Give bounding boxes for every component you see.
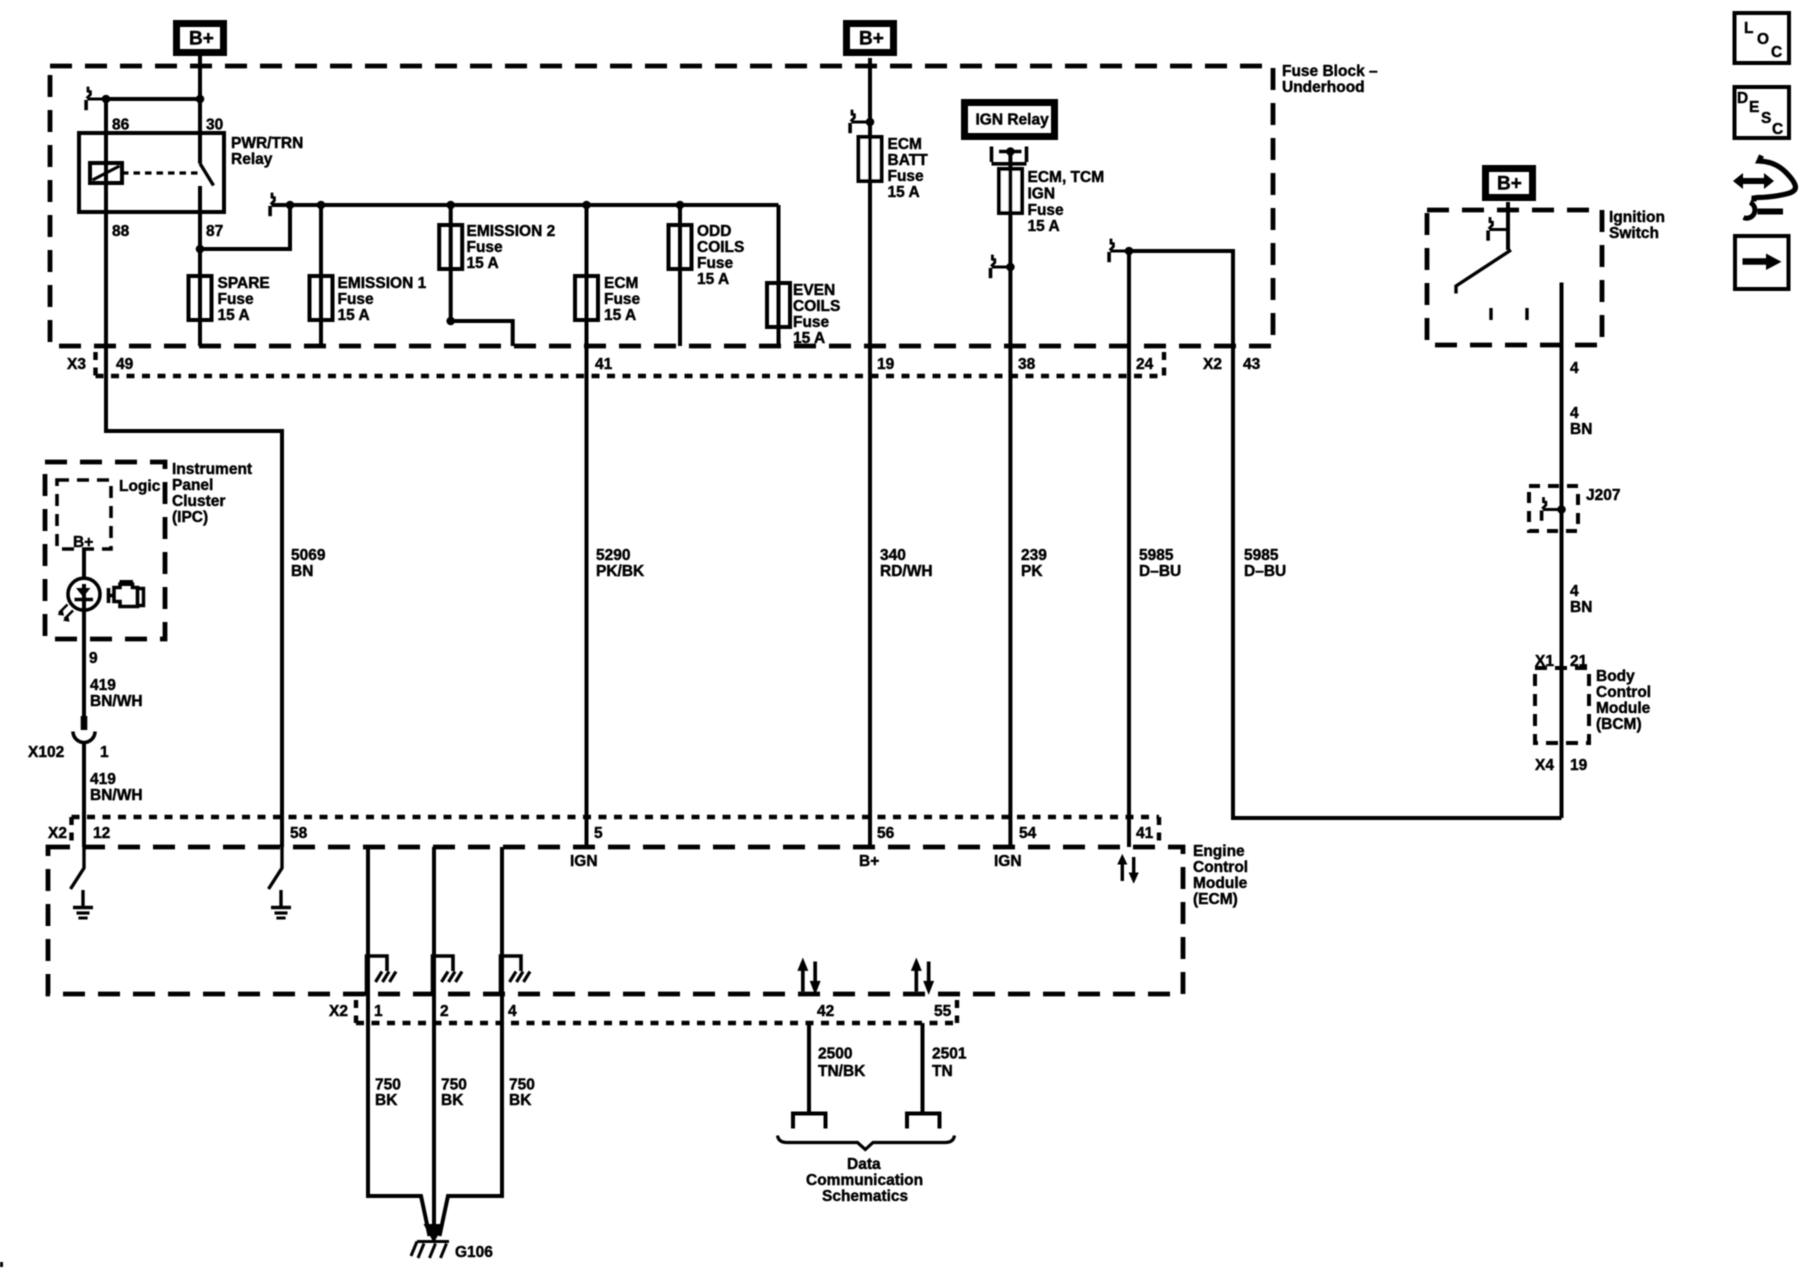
svg-text:19: 19 <box>1570 757 1588 774</box>
svg-text:Schematics: Schematics <box>822 1188 908 1205</box>
svg-text:Ignition: Ignition <box>1609 209 1665 226</box>
svg-text:ECM: ECM <box>604 275 638 292</box>
svg-text:BN: BN <box>1570 421 1592 438</box>
svg-text:BN: BN <box>291 563 313 580</box>
svg-text:Fuse: Fuse <box>604 291 641 308</box>
svg-text:PK: PK <box>1021 563 1043 580</box>
svg-text:Relay: Relay <box>231 151 273 168</box>
svg-text:5985: 5985 <box>1139 547 1174 564</box>
svg-text:E: E <box>1749 99 1759 116</box>
svg-text:41: 41 <box>595 356 613 373</box>
svg-text:EMISSION 2: EMISSION 2 <box>467 223 556 240</box>
svg-text:X2: X2 <box>48 825 67 842</box>
svg-text:5: 5 <box>594 825 603 842</box>
svg-text:19: 19 <box>877 356 895 373</box>
svg-text:L: L <box>1744 20 1753 37</box>
svg-text:Fuse: Fuse <box>338 291 375 308</box>
svg-text:IGN: IGN <box>1028 185 1056 202</box>
svg-text:Fuse: Fuse <box>888 168 925 185</box>
svg-text:Logic: Logic <box>119 478 161 495</box>
svg-text:43: 43 <box>1243 356 1261 373</box>
svg-text:B+: B+ <box>859 853 879 870</box>
svg-text:(BCM): (BCM) <box>1596 716 1642 733</box>
svg-text:Fuse Block –: Fuse Block – <box>1282 63 1378 80</box>
svg-text:Cluster: Cluster <box>172 493 225 510</box>
svg-text:1: 1 <box>100 744 109 761</box>
svg-text:ECM: ECM <box>888 136 922 153</box>
svg-text:9: 9 <box>89 650 98 667</box>
svg-text:419: 419 <box>90 677 116 694</box>
svg-text:2: 2 <box>440 1003 449 1020</box>
svg-text:IGN: IGN <box>994 853 1022 870</box>
svg-text:750: 750 <box>375 1077 401 1094</box>
svg-text:4: 4 <box>1570 360 1579 377</box>
svg-text:D–BU: D–BU <box>1244 563 1286 580</box>
svg-text:BATT: BATT <box>888 152 929 169</box>
svg-text:Engine: Engine <box>1193 843 1245 860</box>
svg-text:5290: 5290 <box>596 547 630 564</box>
svg-text:TN/BK: TN/BK <box>818 1063 866 1080</box>
svg-text:PWR/TRN: PWR/TRN <box>231 135 303 152</box>
svg-text:BN: BN <box>1570 599 1592 616</box>
svg-text:B+: B+ <box>189 29 214 50</box>
svg-text:B+: B+ <box>73 534 93 551</box>
svg-text:O: O <box>1757 31 1769 48</box>
svg-text:4: 4 <box>508 1003 517 1020</box>
svg-text:87: 87 <box>206 223 223 240</box>
svg-text:340: 340 <box>880 547 906 564</box>
svg-text:COILS: COILS <box>793 298 840 315</box>
svg-text:86: 86 <box>112 117 130 134</box>
svg-text:S: S <box>1761 110 1771 127</box>
svg-text:2501: 2501 <box>932 1046 967 1063</box>
svg-text:EMISSION 1: EMISSION 1 <box>338 275 427 292</box>
svg-text:Fuse: Fuse <box>793 314 830 331</box>
svg-text:BK: BK <box>441 1092 464 1109</box>
svg-text:COILS: COILS <box>697 239 744 256</box>
svg-text:BN/WH: BN/WH <box>90 787 143 804</box>
svg-text:C: C <box>1772 121 1783 138</box>
svg-text:D: D <box>1737 90 1748 107</box>
svg-text:55: 55 <box>934 1003 952 1020</box>
svg-text:750: 750 <box>441 1077 467 1094</box>
svg-text:15 A: 15 A <box>888 184 920 201</box>
svg-text:X3: X3 <box>67 356 86 373</box>
svg-text:Module: Module <box>1193 875 1248 892</box>
svg-text:15 A: 15 A <box>793 330 825 347</box>
svg-text:15 A: 15 A <box>218 307 250 324</box>
svg-text:IGN Relay: IGN Relay <box>976 112 1050 129</box>
svg-text:RD/WH: RD/WH <box>880 563 933 580</box>
svg-text:38: 38 <box>1018 356 1036 373</box>
svg-text:49: 49 <box>116 356 134 373</box>
svg-text:30: 30 <box>206 117 223 134</box>
svg-text:Control: Control <box>1193 859 1248 876</box>
svg-text:Fuse: Fuse <box>467 239 504 256</box>
svg-text:B+: B+ <box>859 29 884 50</box>
svg-text:24: 24 <box>1136 356 1154 373</box>
svg-text:Body: Body <box>1596 668 1635 685</box>
svg-text:750: 750 <box>509 1077 535 1094</box>
svg-text:X4: X4 <box>1535 757 1554 774</box>
svg-text:BK: BK <box>509 1092 532 1109</box>
svg-text:239: 239 <box>1021 547 1047 564</box>
svg-text:C: C <box>1771 44 1782 61</box>
svg-text:(ECM): (ECM) <box>1193 891 1238 908</box>
svg-text:5985: 5985 <box>1244 547 1279 564</box>
svg-text:Underhood: Underhood <box>1282 79 1365 96</box>
svg-text:88: 88 <box>112 223 130 240</box>
svg-text:Switch: Switch <box>1609 225 1659 242</box>
svg-text:54: 54 <box>1019 825 1037 842</box>
svg-text:41: 41 <box>1136 825 1154 842</box>
svg-text:42: 42 <box>817 1003 834 1020</box>
svg-text:G106: G106 <box>455 1244 493 1261</box>
svg-text:Fuse: Fuse <box>218 291 255 308</box>
svg-text:Data: Data <box>847 1156 881 1173</box>
svg-text:ECM, TCM: ECM, TCM <box>1028 169 1105 186</box>
svg-text:5069: 5069 <box>291 547 326 564</box>
svg-text:15 A: 15 A <box>338 307 370 324</box>
svg-text:Module: Module <box>1596 700 1651 717</box>
svg-text:56: 56 <box>877 825 895 842</box>
svg-text:58: 58 <box>290 825 308 842</box>
svg-text:4: 4 <box>1570 405 1579 422</box>
svg-text:TN: TN <box>932 1063 953 1080</box>
svg-text:419: 419 <box>90 771 116 788</box>
svg-text:Fuse: Fuse <box>697 255 734 272</box>
svg-text:1: 1 <box>374 1003 383 1020</box>
svg-text:X2: X2 <box>1203 356 1222 373</box>
svg-text:J207: J207 <box>1586 487 1620 504</box>
svg-text:Control: Control <box>1596 684 1651 701</box>
svg-text:15 A: 15 A <box>467 255 499 272</box>
svg-text:(IPC): (IPC) <box>172 509 208 526</box>
svg-text:D–BU: D–BU <box>1139 563 1181 580</box>
svg-text:SPARE: SPARE <box>218 275 270 292</box>
svg-text:2500: 2500 <box>818 1046 852 1063</box>
svg-text:Fuse: Fuse <box>1028 202 1065 219</box>
svg-text:BN/WH: BN/WH <box>90 693 143 710</box>
svg-text:EVEN: EVEN <box>793 282 835 299</box>
svg-text:BK: BK <box>375 1092 398 1109</box>
svg-text:Panel: Panel <box>172 477 213 494</box>
svg-text:B+: B+ <box>1497 174 1522 195</box>
svg-text:X2: X2 <box>329 1003 348 1020</box>
svg-text:15 A: 15 A <box>697 271 729 288</box>
svg-text:Instrument: Instrument <box>172 461 252 478</box>
svg-text:12: 12 <box>93 825 110 842</box>
svg-text:IGN: IGN <box>570 853 598 870</box>
svg-text:ODD: ODD <box>697 223 731 240</box>
svg-text:4: 4 <box>1570 583 1579 600</box>
svg-text:15 A: 15 A <box>604 307 636 324</box>
svg-text:PK/BK: PK/BK <box>596 563 645 580</box>
svg-text:Communication: Communication <box>806 1172 923 1189</box>
svg-text:X102: X102 <box>28 744 64 761</box>
svg-text:15 A: 15 A <box>1028 218 1060 235</box>
